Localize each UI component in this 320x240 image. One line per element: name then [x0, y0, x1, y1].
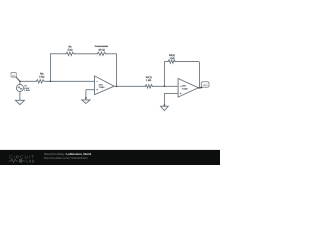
- op-amp OA1 label: [99, 83, 106, 89]
- ground tick 2: [163, 104, 165, 106]
- node Vout flag: [199, 82, 210, 89]
- svg-text:http://circuitlab.com/c/7996zs: http://circuitlab.com/c/7996zsb522m: [44, 157, 89, 160]
- junction dots: [19, 80, 200, 88]
- potentiometer: [97, 52, 105, 55]
- op-amp OA1: [95, 76, 115, 95]
- ground: [82, 100, 90, 104]
- wire: [50, 53, 66, 55]
- op-amp OA2: [178, 79, 198, 98]
- svg-text:1 kHz: 1 kHz: [24, 89, 30, 92]
- wire: [152, 85, 178, 87]
- wire: [85, 90, 87, 100]
- voltage source labels: [24, 85, 30, 93]
- svg-text:2 kΩ: 2 kΩ: [67, 48, 72, 51]
- labels: [39, 45, 175, 82]
- wire: [164, 92, 178, 94]
- footer logo zigzag + LAB: [9, 159, 25, 162]
- wire: [114, 85, 145, 87]
- wire: [175, 61, 199, 63]
- wire: [19, 92, 21, 101]
- ground tick 1: [85, 97, 87, 99]
- wire: [86, 89, 95, 91]
- svg-text:TL081: TL081: [99, 86, 106, 89]
- wire: [45, 80, 95, 82]
- resistor Rb: [66, 52, 74, 55]
- wire: [116, 54, 118, 87]
- footer bar: [0, 150, 220, 165]
- op-amp OA2 label: [182, 85, 189, 91]
- wire: [74, 53, 97, 55]
- ground: [161, 106, 169, 110]
- resistor Rd: [168, 60, 175, 63]
- svg-text:Vout: Vout: [203, 84, 208, 87]
- wire: [49, 54, 51, 82]
- wire: [20, 80, 36, 82]
- wire: [164, 61, 168, 63]
- wire: [19, 81, 21, 84]
- ground: [15, 100, 24, 104]
- wire: [163, 93, 165, 106]
- svg-text:SimonTremblay / Labtension_N: SimonTremblay / Labtension_Num1: [44, 152, 92, 156]
- svg-text:10 kΩ: 10 kΩ: [98, 48, 105, 51]
- wire: [163, 62, 165, 87]
- svg-text:1 kΩ: 1 kΩ: [169, 57, 174, 60]
- svg-text:TL081: TL081: [182, 87, 189, 90]
- node Vin flag: [11, 72, 20, 81]
- voltage source V1: [16, 84, 23, 91]
- wire: [106, 53, 117, 55]
- pin dots: [36, 53, 176, 87]
- wire: [198, 62, 200, 88]
- svg-text:LAB: LAB: [26, 159, 35, 164]
- resistor Rin: [36, 80, 44, 83]
- svg-text:Vin: Vin: [12, 74, 15, 77]
- resistor Rc: [145, 85, 152, 88]
- svg-text:1 kΩ: 1 kΩ: [146, 79, 151, 82]
- svg-text:5 kΩ: 5 kΩ: [39, 75, 44, 78]
